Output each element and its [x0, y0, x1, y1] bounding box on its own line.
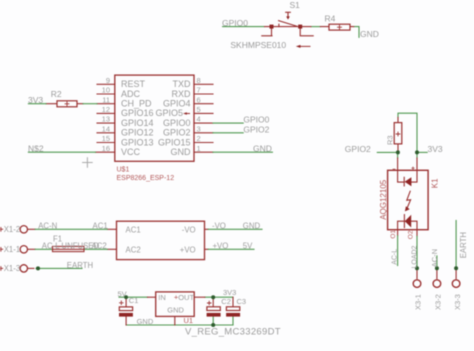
svg-text:9: 9 [106, 76, 110, 85]
svg-text:U1: U1 [184, 316, 194, 325]
svg-text:+VO: +VO [213, 241, 229, 250]
svg-text:7: 7 [197, 86, 201, 95]
svg-text:11: 11 [102, 95, 110, 104]
svg-text:GPIO15: GPIO15 [158, 137, 191, 147]
svg-text:ADC: ADC [121, 89, 141, 99]
svg-text:AC-N: AC-N [430, 249, 439, 267]
svg-text:OUT: OUT [178, 293, 194, 302]
svg-text:GPIO13: GPIO13 [121, 137, 154, 147]
svg-text:TXD: TXD [173, 79, 192, 89]
svg-text:X3-1: X3-1 [414, 294, 423, 310]
svg-text:-VO: -VO [212, 221, 226, 230]
svg-text:GPIO2: GPIO2 [345, 144, 371, 154]
svg-text:AC2: AC2 [126, 245, 141, 254]
svg-text:X1-3: X1-3 [4, 264, 20, 273]
svg-text:GPIO2: GPIO2 [163, 128, 191, 138]
svg-text:8: 8 [197, 76, 201, 85]
svg-text:3: 3 [197, 124, 201, 133]
svg-text:6: 6 [197, 95, 201, 104]
svg-text:-VO: -VO [182, 225, 196, 234]
svg-text:3V3: 3V3 [223, 288, 236, 297]
svg-text:C3: C3 [237, 297, 247, 306]
svg-text:O1: O1 [390, 230, 397, 239]
svg-text:S1: S1 [290, 0, 301, 10]
svg-text:GPIO12: GPIO12 [121, 128, 154, 138]
svg-text:5: 5 [197, 105, 201, 114]
svg-text:GPIO5: GPIO5 [155, 108, 183, 118]
svg-text:AC1: AC1 [93, 222, 108, 231]
svg-text:ESP8266_ESP-12: ESP8266_ESP-12 [117, 175, 175, 182]
svg-text:O2: O2 [408, 230, 415, 239]
svg-text:GND: GND [243, 221, 261, 230]
svg-text:AC2: AC2 [92, 241, 107, 250]
svg-text:12: 12 [102, 105, 110, 114]
svg-text:14: 14 [102, 124, 110, 133]
svg-text:R2: R2 [51, 89, 62, 99]
svg-text:5V: 5V [243, 241, 253, 250]
svg-text:VCC: VCC [121, 147, 141, 157]
svg-text:RXD: RXD [171, 89, 191, 99]
svg-text:GPIO2: GPIO2 [243, 124, 269, 134]
svg-text:2: 2 [197, 134, 201, 143]
svg-text:GPIO0: GPIO0 [222, 18, 248, 28]
svg-text:1: 1 [197, 144, 201, 153]
svg-text:10: 10 [102, 86, 110, 95]
svg-text:U$1: U$1 [117, 167, 130, 174]
svg-text:GND: GND [253, 144, 272, 154]
svg-text:EARTH: EARTH [459, 232, 468, 258]
svg-text:15: 15 [102, 134, 110, 143]
svg-text:X3-3: X3-3 [453, 294, 462, 310]
svg-text:GND: GND [171, 147, 192, 157]
svg-text:C1: C1 [129, 296, 139, 305]
svg-text:EARTH: EARTH [67, 261, 93, 270]
svg-text:3V3: 3V3 [428, 144, 443, 154]
svg-text:GPIO0: GPIO0 [163, 118, 191, 128]
svg-text:AC-N: AC-N [38, 222, 57, 231]
svg-text:C2: C2 [221, 297, 231, 306]
svg-text:4: 4 [197, 115, 201, 124]
svg-text:AC-L: AC-L [391, 249, 398, 265]
svg-text:GND: GND [137, 317, 154, 326]
svg-text:LOAD2: LOAD2 [412, 245, 419, 268]
svg-text:AC1: AC1 [126, 225, 141, 234]
svg-text:REST: REST [121, 79, 146, 89]
svg-text:X3-2: X3-2 [433, 294, 442, 310]
svg-text:CH_PD: CH_PD [121, 99, 152, 109]
svg-text:GND: GND [167, 306, 184, 315]
svg-text:V_REG_MC33269DT: V_REG_MC33269DT [185, 327, 281, 338]
svg-text:5V: 5V [118, 290, 127, 299]
svg-text:X1-2: X1-2 [4, 225, 20, 234]
svg-text:13: 13 [102, 115, 110, 124]
svg-text:GPIO14: GPIO14 [121, 118, 154, 128]
svg-text:N$2: N$2 [28, 143, 44, 153]
svg-text:IN: IN [158, 293, 166, 302]
svg-text:GPIO0: GPIO0 [243, 115, 269, 125]
svg-text:3V3: 3V3 [28, 95, 43, 105]
svg-text:X1-1: X1-1 [4, 245, 20, 254]
svg-text:AQG12105: AQG12105 [379, 179, 388, 220]
svg-text:+VO: +VO [180, 245, 196, 254]
svg-text:GPIO16: GPIO16 [121, 108, 154, 118]
svg-text:R4: R4 [325, 14, 336, 24]
svg-text:16: 16 [102, 144, 110, 153]
svg-text:R3: R3 [386, 135, 395, 145]
svg-text:K1: K1 [431, 178, 440, 188]
svg-text:GPIO4: GPIO4 [163, 99, 191, 109]
svg-text:SKHMPSE010: SKHMPSE010 [230, 40, 286, 50]
svg-text:GND: GND [360, 29, 379, 39]
